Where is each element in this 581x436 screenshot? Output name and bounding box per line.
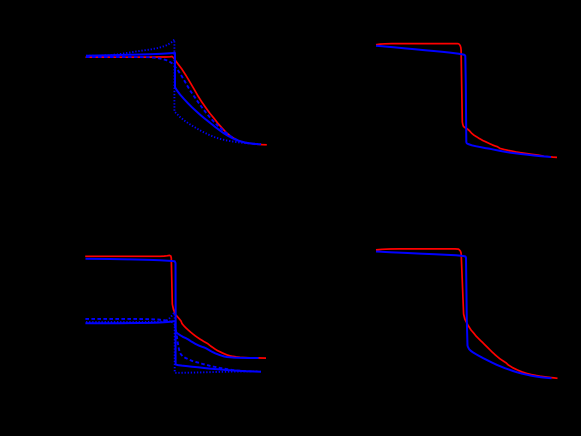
TL subplot: blue dashed curve [86, 57, 258, 144]
BL subplot: blue solid upper curve [86, 259, 259, 358]
BL subplot: blue dotted lower curve [86, 313, 258, 373]
BR subplot: red curve [376, 249, 558, 378]
BL subplot: blue solid lower curve [85, 321, 261, 372]
TL subplot: blue solid curve [86, 53, 261, 144]
TR subplot: red curve [376, 44, 557, 158]
BL subplot: blue dashed lower curve [85, 319, 261, 372]
BR subplot: blue curve [376, 252, 552, 379]
BL subplot: red exact solution [85, 255, 266, 358]
TL subplot: red exact solution [86, 57, 267, 145]
TR subplot: blue curve [376, 46, 551, 157]
TL subplot: blue dotted curve [86, 40, 261, 145]
